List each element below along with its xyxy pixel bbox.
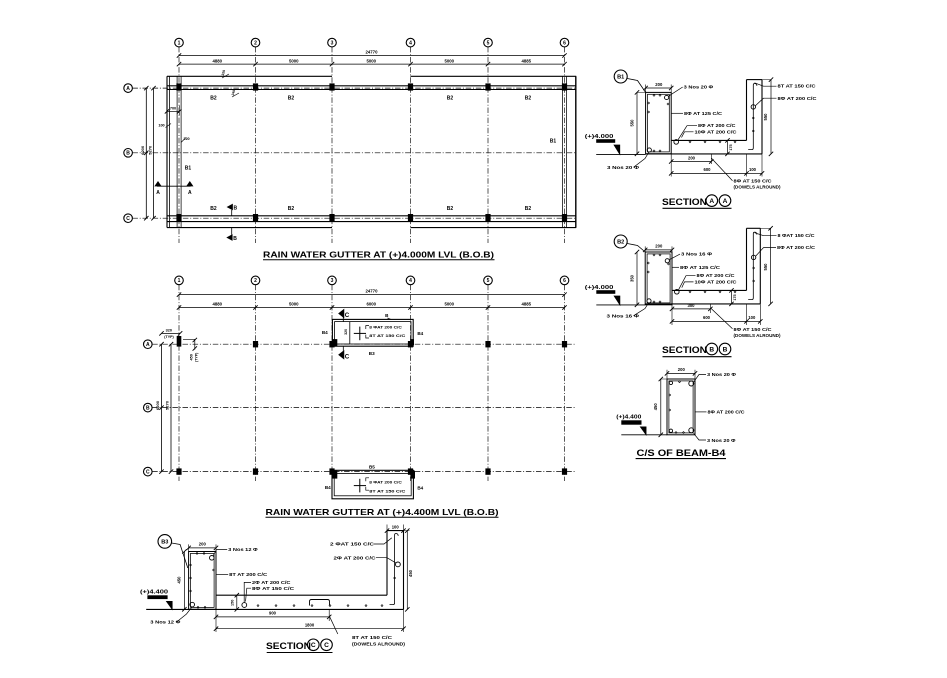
- plan1 column at row C: [562, 214, 567, 221]
- section C-C slab left rebar circle: [242, 603, 247, 608]
- svg-text:2Φ AT 200 C/C: 2Φ AT 200 C/C: [252, 580, 291, 585]
- svg-text:3 Nos 12 Φ: 3 Nos 12 Φ: [150, 620, 181, 625]
- plan1 grid bubble 5: [484, 38, 493, 47]
- section C-C slab top line: [216, 594, 387, 596]
- plan2 grid bubble 3: [328, 276, 337, 285]
- svg-text:4: 4: [409, 278, 412, 284]
- svg-text:4: 4: [409, 40, 412, 46]
- svg-text:(DOWELS ALROUND): (DOWELS ALROUND): [734, 185, 782, 190]
- section C-C slab rebar dots: [257, 605, 259, 607]
- svg-text:550: 550: [629, 119, 634, 127]
- section A-A slab: [671, 139, 746, 141]
- svg-text:B2: B2: [210, 206, 217, 212]
- svg-text:6000: 6000: [366, 302, 376, 307]
- plan2 gutter box B3 left wall line: [349, 322, 351, 344]
- plan1 column at row A: [562, 83, 567, 90]
- svg-text:8Φ AT 200 C/C: 8Φ AT 200 C/C: [698, 123, 736, 128]
- plan2 section cut C bottom marker: [339, 351, 344, 359]
- svg-text:B2: B2: [447, 206, 454, 212]
- plan2 grid line 1: [178, 285, 180, 481]
- plan1 row A centerline: [132, 87, 576, 89]
- plan1 grid line 2: [255, 47, 257, 243]
- plan2 left dimension 5270: [170, 344, 172, 471]
- svg-text:C: C: [311, 642, 316, 649]
- svg-text:B: B: [146, 405, 150, 411]
- section B-B left dimension 350: [636, 252, 638, 305]
- svg-text:8Φ AT 200 C/C: 8Φ AT 200 C/C: [778, 96, 817, 101]
- svg-text:B: B: [233, 236, 237, 242]
- section C-C ground line: [146, 608, 403, 610]
- svg-text:8T AT 200 C/C: 8T AT 200 C/C: [229, 572, 267, 577]
- svg-text:B5: B5: [369, 465, 375, 470]
- plan1 beam B2 row C band: [167, 215, 576, 217]
- section B-B slab junction rebar circle: [675, 290, 680, 295]
- plan2 total dimension 24770: [179, 294, 565, 296]
- plan1 column at row C: [485, 214, 490, 221]
- plan1 column at row C: [329, 214, 334, 221]
- section B-B right wall stirrup: [748, 232, 757, 299]
- svg-text:(+)4.400: (+)4.400: [140, 590, 168, 596]
- plan2 row C centerline: [152, 471, 575, 473]
- svg-text:5000: 5000: [289, 58, 299, 63]
- section A-A right wall stirrup: [748, 84, 757, 150]
- svg-text:(DOWELS ALROUND): (DOWELS ALROUND): [734, 333, 782, 338]
- plan1 grid line 5: [487, 47, 489, 243]
- plan1 total dimension 24770: [179, 55, 565, 57]
- plan2 grid line 2: [255, 285, 257, 481]
- svg-text:B3: B3: [369, 351, 375, 356]
- plan1 row B centerline: [132, 152, 576, 154]
- plan2 dimension 450 TYP: [183, 339, 195, 349]
- svg-text:RAIN WATER GUTTER AT (+)4.000M: RAIN WATER GUTTER AT (+)4.000M LVL (B.O.…: [263, 250, 494, 259]
- section B-B right wall rebar circle: [751, 255, 755, 259]
- svg-text:8Φ AT 200 C/C: 8Φ AT 200 C/C: [697, 273, 735, 278]
- svg-text:B2: B2: [210, 95, 217, 101]
- section A-A leader from B1 to beam: [627, 79, 645, 93]
- svg-text:8Φ AT 150 C/C: 8Φ AT 150 C/C: [734, 178, 772, 183]
- plan2 column at row C: [253, 468, 258, 474]
- plan1 left dimension 6200: [145, 88, 147, 218]
- svg-text:100: 100: [749, 167, 757, 172]
- section C-C right wall rebar circle: [396, 562, 401, 567]
- svg-text:6200: 6200: [140, 145, 145, 155]
- plan2 column at row A: [485, 341, 490, 347]
- plan2 column at row C: [562, 468, 567, 474]
- svg-text:5000: 5000: [366, 58, 376, 63]
- plan2 column at row A: [562, 341, 567, 347]
- plan1 grid bubble 6: [560, 38, 569, 47]
- svg-text:C: C: [324, 642, 329, 649]
- svg-text:B2: B2: [525, 95, 532, 101]
- plan1 column at row A: [176, 83, 181, 90]
- plan2 grid line 5: [487, 285, 489, 481]
- plan1 column at row C: [408, 214, 413, 221]
- svg-text:C: C: [146, 469, 150, 475]
- svg-text:150: 150: [231, 600, 235, 606]
- svg-text:3 Nos 20 Φ: 3 Nos 20 Φ: [707, 438, 736, 443]
- plan2 gutter box B5 note 8 dia AT 200 C/C: [366, 478, 369, 481]
- svg-text:200: 200: [655, 244, 663, 249]
- plan1 section cut B bottom marker: [227, 235, 232, 241]
- section C-C note 8T AT 150 C/C DOWELS ALROUND: [329, 616, 337, 634]
- section B-B bottom dimension 300: [671, 304, 673, 325]
- svg-text:B2: B2: [288, 95, 295, 101]
- svg-text:B3: B3: [161, 539, 168, 545]
- svg-text:450: 450: [190, 354, 194, 360]
- plan2 grid bubble 6: [560, 276, 569, 285]
- svg-text:A: A: [188, 190, 192, 196]
- section B-B note 8 dia AT 150 C/C DOWELS ALROUND: [711, 308, 733, 329]
- plan1 column at row C: [253, 214, 258, 221]
- svg-text:600: 600: [703, 315, 711, 320]
- plan2 grid line 4: [410, 285, 412, 481]
- svg-text:8 ΦAT 150 C/C: 8 ΦAT 150 C/C: [778, 233, 815, 238]
- plan1 grid bubble 3: [328, 38, 337, 47]
- svg-text:(+)4.400: (+)4.400: [616, 414, 641, 420]
- svg-text:1: 1: [178, 40, 181, 46]
- plan1 outer wall left: [166, 76, 168, 227]
- svg-text:8Φ AT 150 C/C: 8Φ AT 150 C/C: [252, 586, 294, 591]
- svg-text:100: 100: [158, 124, 164, 128]
- svg-text:B4: B4: [417, 485, 423, 490]
- plan2 grid bubble 5: [484, 276, 493, 285]
- svg-text:10Φ AT 200 C/C: 10Φ AT 200 C/C: [695, 129, 737, 134]
- section A-A bottom dimension 600: [746, 154, 748, 177]
- svg-text:5270: 5270: [147, 145, 152, 155]
- plan1 grid bubble 4: [406, 38, 415, 47]
- svg-text:B4: B4: [417, 331, 423, 336]
- svg-text:1800: 1800: [305, 623, 315, 628]
- svg-text:4880: 4880: [212, 58, 222, 63]
- plan1 bay dimension line: [179, 63, 565, 65]
- svg-text:200: 200: [655, 82, 663, 87]
- section A-A beam B1 cross-section: [646, 92, 672, 153]
- svg-text:(+)4.000: (+)4.000: [585, 134, 614, 140]
- plan2 bay dimension line: [179, 307, 565, 309]
- plan1 row C centerline: [132, 217, 576, 219]
- svg-text:(+)4.000: (+)4.000: [585, 285, 614, 291]
- svg-text:A: A: [156, 190, 160, 196]
- svg-text:3 Nos 16 Φ: 3 Nos 16 Φ: [681, 252, 713, 257]
- svg-text:8Φ AT 200 C/C: 8Φ AT 200 C/C: [777, 245, 815, 250]
- svg-text:8T AT 150 C/C: 8T AT 150 C/C: [352, 635, 392, 640]
- plan2 gutter box B5 outline: [332, 470, 413, 499]
- svg-text:6: 6: [563, 278, 566, 284]
- svg-text:8Φ AT 125 C/C: 8Φ AT 125 C/C: [684, 111, 722, 116]
- svg-text:450: 450: [653, 403, 658, 411]
- svg-text:300: 300: [688, 303, 696, 308]
- svg-text:600: 600: [704, 167, 712, 172]
- plan1 column at row A: [408, 83, 413, 90]
- plan1 grid line 3: [331, 47, 333, 243]
- svg-text:450: 450: [408, 569, 413, 577]
- svg-text:320: 320: [344, 329, 348, 335]
- section B-B top dimension 200: [645, 249, 672, 251]
- svg-text:B2: B2: [447, 95, 454, 101]
- svg-text:B: B: [233, 205, 237, 211]
- plan1 section cut A-A marker: [157, 185, 191, 187]
- svg-text:SECTION: SECTION: [662, 345, 707, 355]
- plan1 outer wall bottom-right segment: [411, 227, 577, 229]
- svg-text:C: C: [345, 353, 350, 360]
- svg-text:3: 3: [331, 40, 334, 46]
- plan1 beam B1 right vertical (grid 6): [561, 76, 563, 227]
- svg-text:200: 200: [199, 542, 207, 547]
- svg-text:B4: B4: [325, 485, 331, 490]
- svg-text:200: 200: [678, 367, 686, 372]
- section B-B right dimension 550: [770, 228, 772, 304]
- svg-text:24770: 24770: [366, 289, 379, 294]
- svg-text:320: 320: [166, 328, 172, 332]
- section B-B slab thickness dimension 175: [731, 290, 733, 304]
- svg-text:B2: B2: [525, 206, 532, 212]
- plan2 column at row C: [329, 468, 334, 474]
- plan1 grid bubble 2: [251, 38, 260, 47]
- section A-A right wall: [746, 80, 748, 141]
- svg-text:5270: 5270: [165, 400, 170, 410]
- plan2 column at row C: [408, 468, 413, 474]
- plan1 row bubble A: [124, 84, 133, 93]
- plan2 dimension 320 TYP: [162, 332, 181, 334]
- plan1 outer wall top-left segment: [167, 75, 332, 77]
- svg-text:450: 450: [177, 576, 182, 584]
- svg-text:5: 5: [487, 40, 490, 46]
- section C-C right wall: [386, 531, 388, 596]
- section B-B beam B2 cross-section: [645, 252, 672, 305]
- section C-C bottom dimension 900: [215, 609, 217, 632]
- plan2 row bubble B: [144, 403, 153, 412]
- svg-text:100: 100: [748, 315, 756, 320]
- section C-C slab thickness dimension 150: [236, 595, 238, 609]
- svg-text:4880: 4880: [212, 302, 222, 307]
- plan1 outer wall right: [575, 76, 577, 227]
- section C-C right wall stirrup: [390, 534, 399, 605]
- plan1 grid line 1: [178, 47, 180, 243]
- plan1 outer wall top-right segment: [411, 75, 577, 77]
- svg-text:(DOWELS ALROUND): (DOWELS ALROUND): [352, 641, 406, 646]
- svg-text:550: 550: [763, 113, 768, 121]
- svg-text:10Φ AT 200 C/C: 10Φ AT 200 C/C: [695, 279, 737, 284]
- plan2 row A centerline: [152, 343, 575, 345]
- plan1 column at row A: [485, 83, 490, 90]
- section A-A slab thickness dimension 175: [727, 140, 729, 154]
- plan2 gutter box B5 rebar cross symbol: [359, 479, 361, 493]
- svg-text:2: 2: [254, 278, 257, 284]
- svg-text:2Φ AT 200 C/C: 2Φ AT 200 C/C: [334, 555, 376, 560]
- plan1 grid bubble 1: [175, 38, 184, 47]
- svg-text:(TYP): (TYP): [164, 335, 174, 339]
- plan1 outer wall bottom-left segment: [167, 227, 332, 229]
- section B-B right wall: [746, 228, 748, 290]
- svg-text:900: 900: [269, 611, 277, 616]
- svg-text:3: 3: [331, 278, 334, 284]
- section A-A slab junction rebar circle: [674, 140, 679, 145]
- section B-B bubble B2: [614, 235, 627, 248]
- svg-text:RAIN WATER GUTTER AT (+)4.400M: RAIN WATER GUTTER AT (+)4.400M LVL (B.O.…: [266, 508, 499, 517]
- plan2 section cut C top marker: [339, 309, 344, 317]
- section C-C left dimension 450: [183, 552, 185, 610]
- svg-text:B: B: [126, 151, 130, 157]
- plan2 left dimension 6200: [161, 344, 163, 471]
- svg-text:8 ΦAT 200 C/C: 8 ΦAT 200 C/C: [369, 480, 402, 485]
- svg-text:SECTION: SECTION: [266, 641, 311, 651]
- svg-text:B4: B4: [322, 330, 328, 335]
- section A-A bottom dimension 200: [670, 154, 672, 177]
- plan2 gutter box B5 note 8T AT 150 C/C: [366, 487, 369, 490]
- plan2 row bubble C: [144, 467, 153, 476]
- svg-text:B: B: [723, 346, 728, 353]
- svg-text:175: 175: [729, 144, 733, 150]
- svg-text:3 Nos 20 Φ: 3 Nos 20 Φ: [607, 165, 640, 170]
- svg-text:5: 5: [487, 278, 490, 284]
- svg-text:B1: B1: [185, 165, 192, 171]
- svg-text:A: A: [146, 342, 150, 348]
- svg-text:A: A: [723, 198, 728, 205]
- plan2 gutter box B5 corner column right: [410, 471, 415, 479]
- section C-C top dimension 200: [189, 547, 216, 549]
- svg-text:B1: B1: [617, 75, 624, 81]
- plan1 beam B2 row A band: [167, 85, 576, 87]
- svg-text:700: 700: [170, 107, 176, 111]
- beam B4 left dimension 450: [660, 379, 662, 435]
- plan2 column at row A: [408, 341, 413, 347]
- svg-text:4885: 4885: [521, 302, 531, 307]
- section A-A top dimension 200: [646, 87, 672, 89]
- plan1 left dimension 5270: [153, 88, 155, 218]
- svg-text:3 Nos 20 Φ: 3 Nos 20 Φ: [684, 85, 714, 90]
- section A-A bubble B1: [614, 70, 627, 83]
- plan2 grid line 6: [564, 285, 566, 481]
- plan1 column at row A: [253, 83, 258, 90]
- plan2 gutter box B3 note 8T AT 150 C/C: [366, 335, 369, 338]
- section C-C dowel hook: [310, 600, 330, 606]
- plan1 column at row C: [176, 214, 181, 221]
- svg-text:2: 2: [254, 40, 257, 46]
- svg-text:A: A: [126, 86, 130, 92]
- section C-C bottom dimension 1800: [403, 609, 405, 632]
- svg-text:(TYP): (TYP): [195, 352, 199, 362]
- svg-text:C: C: [126, 216, 130, 222]
- svg-text:5000: 5000: [444, 58, 454, 63]
- svg-text:175: 175: [733, 294, 737, 300]
- plan2 column at row C: [485, 468, 490, 474]
- svg-text:8Φ AT 150 C/C: 8Φ AT 150 C/C: [734, 327, 772, 332]
- svg-text:3 Nos 16 Φ: 3 Nos 16 Φ: [607, 314, 640, 319]
- plan1 section cut B top marker: [227, 204, 232, 210]
- svg-text:3 Nos 12 Φ: 3 Nos 12 Φ: [228, 547, 258, 552]
- plan1 grid line 6: [564, 47, 566, 243]
- plan1 row bubble C: [124, 214, 133, 223]
- section A-A left dimension 550: [636, 92, 638, 153]
- svg-text:6200: 6200: [155, 400, 160, 410]
- svg-text:SECTION: SECTION: [662, 197, 707, 207]
- plan2 gutter box B3 note 8 dia AT 200 C/C: [366, 326, 369, 329]
- svg-text:5000: 5000: [289, 302, 299, 307]
- svg-text:4885: 4885: [521, 58, 531, 63]
- plan2 grid line 3: [331, 285, 333, 481]
- svg-text:8T AT 150 C/C: 8T AT 150 C/C: [369, 488, 405, 493]
- plan2 grid bubble 1: [175, 276, 184, 285]
- beam B4 top dimension 200: [667, 372, 695, 374]
- plan1 beam B1 left vertical (grid 1): [176, 76, 178, 227]
- plan2 row B centerline: [152, 407, 575, 409]
- svg-text:B2: B2: [288, 206, 295, 212]
- plan2 gutter box B3 rebar cross symbol: [359, 327, 361, 341]
- section A-A bottom dimension 100: [747, 172, 763, 174]
- svg-text:100: 100: [392, 525, 400, 530]
- section B-B bottom dimension 600: [746, 304, 748, 325]
- section C-C wall top dimension 100: [385, 528, 389, 532]
- section C-C bubble B3: [158, 535, 172, 549]
- section C-C right dimension 450: [406, 531, 408, 610]
- section B-B bottom dimension 100: [747, 320, 761, 322]
- plan2 column at row A: [177, 336, 182, 347]
- plan2 grid bubble 2: [251, 276, 260, 285]
- plan2 column at row A: [253, 341, 258, 347]
- svg-text:8 ΦAT 200 C/C: 8 ΦAT 200 C/C: [369, 324, 402, 329]
- plan2 row bubble A: [144, 340, 153, 349]
- svg-text:24770: 24770: [366, 50, 379, 55]
- section A-A note 8 dia AT 150 C/C DOWELS ALROUND: [712, 158, 733, 181]
- plan1 row bubble B: [124, 149, 133, 158]
- svg-text:C/S OF BEAM-B4: C/S OF BEAM-B4: [637, 448, 727, 458]
- svg-text:350: 350: [629, 274, 634, 282]
- svg-text:8Φ AT 125 C/C: 8Φ AT 125 C/C: [680, 265, 720, 270]
- beam B4 cross-section: [667, 379, 695, 435]
- section A-A right wall rebar circle: [751, 105, 755, 109]
- section C-C beam B3 cross-section: [189, 552, 216, 610]
- svg-text:6: 6: [563, 40, 566, 46]
- svg-text:5000: 5000: [444, 302, 454, 307]
- plan1 dimension 700: [167, 110, 179, 112]
- section B-B leader from B2 to beam: [627, 244, 645, 253]
- svg-text:1: 1: [178, 278, 181, 284]
- plan1 column at row A: [329, 83, 334, 90]
- plan2 column at row A: [329, 341, 334, 347]
- svg-text:8T AT 150 C/C: 8T AT 150 C/C: [369, 333, 405, 338]
- plan2 gutter box B3 corner column right: [410, 339, 414, 345]
- svg-text:C: C: [345, 312, 350, 319]
- plan2 grid bubble 4: [406, 276, 415, 285]
- svg-text:200: 200: [688, 156, 696, 161]
- svg-text:B1: B1: [550, 139, 557, 145]
- plan2 column at row C: [176, 468, 181, 474]
- svg-text:B: B: [709, 346, 714, 353]
- svg-text:8Φ AT 200 C/C: 8Φ AT 200 C/C: [708, 410, 745, 415]
- section A-A right dimension 550: [770, 80, 772, 154]
- section C-C leader from B3 to column: [172, 543, 188, 568]
- svg-text:B2: B2: [617, 240, 624, 246]
- svg-text:2 ΦAT 150 C/C: 2 ΦAT 150 C/C: [330, 542, 374, 547]
- plan2 gutter box B3 corner column left: [332, 339, 337, 346]
- svg-text:550: 550: [763, 263, 768, 271]
- plan2 gutter box B3 outline: [332, 319, 413, 346]
- svg-text:3 Nos 20 Φ: 3 Nos 20 Φ: [707, 372, 737, 377]
- svg-text:8T AT 150 C/C: 8T AT 150 C/C: [778, 84, 816, 89]
- plan1 grid line 4: [410, 47, 412, 243]
- svg-text:A: A: [709, 198, 714, 205]
- section B-B slab: [672, 289, 747, 291]
- plan2 gutter box B5 corner column left: [332, 471, 337, 479]
